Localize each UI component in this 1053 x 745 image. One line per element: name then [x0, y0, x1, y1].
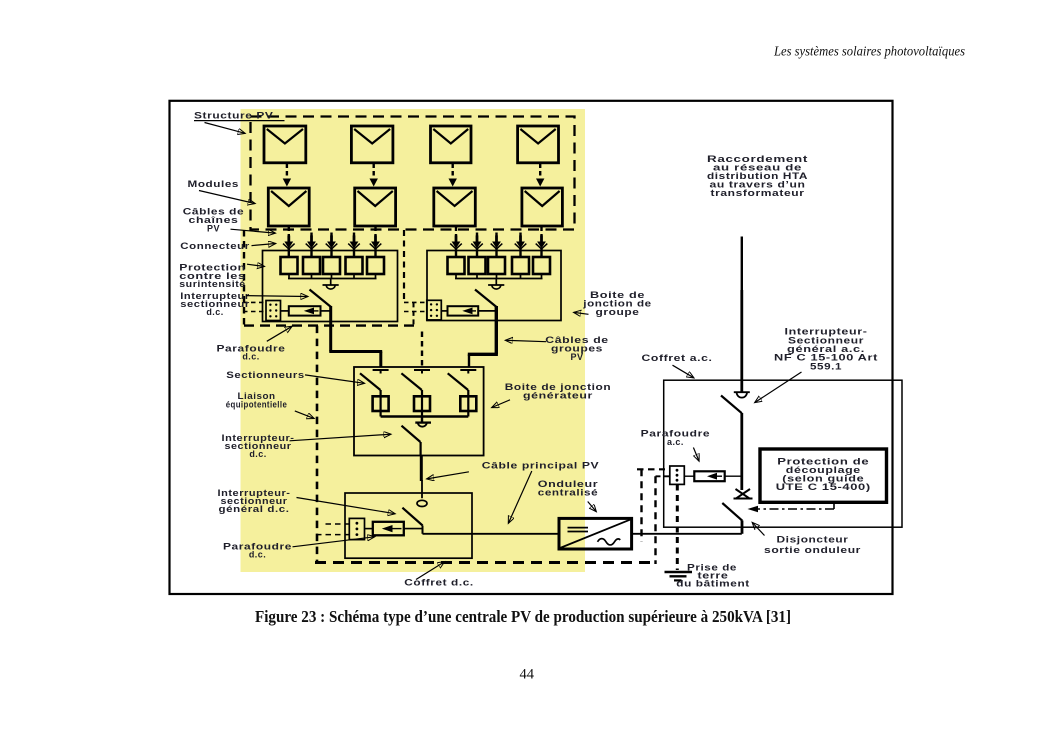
- coffret a.c. enclosure: [664, 380, 902, 527]
- label: Interrupteur sectionneur d.c. (junction box): [180, 291, 308, 317]
- label: Parafoudre d.c. (coffret): [223, 537, 375, 560]
- terminal block of parafoudre a.c.: [670, 466, 685, 484]
- wire: string stub 2 into junction box 1: [306, 233, 318, 258]
- svg-text:Structure PV: Structure PV: [194, 110, 274, 120]
- label: Raccordement au reseau HTA: [707, 154, 808, 198]
- HTA feeder line (to transformer network): [741, 237, 743, 393]
- PV module M2: [351, 126, 393, 163]
- svg-text:Câble principal PV: Câble principal PV: [482, 460, 600, 470]
- svg-text:transformateur: transformateur: [711, 188, 805, 198]
- svg-text:PV: PV: [207, 223, 220, 233]
- dashed earthing stubs from coffret d.c. terminal: [316, 524, 349, 535]
- wire: string stub 8 into junction box 2: [515, 233, 527, 258]
- bus bar of junction box 2: [455, 274, 543, 279]
- label: Interrupteur-Sectionneur general a.c.: [755, 327, 878, 403]
- label: Cable principal PV: [427, 460, 599, 523]
- label: Interrupteur-sectionneur d.c. (generator box): [222, 433, 391, 459]
- generator box branch 2: disconnector + fuse: [401, 370, 430, 417]
- fuse F6: [448, 257, 465, 274]
- fuse F10: [533, 257, 550, 274]
- label: Boite de jonction generateur: [492, 382, 611, 408]
- outer figure frame: [170, 101, 893, 594]
- wire: M6 string cable into junction box 1: [370, 227, 382, 258]
- ground (prise de terre): [665, 572, 693, 580]
- PV module M3: [431, 126, 472, 163]
- label: Coffret a.c.: [642, 353, 713, 378]
- junction box 2 (boite de jonction de groupe, right): [427, 251, 561, 321]
- wire: string stub 4 into junction box 1: [348, 233, 360, 258]
- wire: main DC cable coffret to inverter: [423, 533, 560, 535]
- wire: M7 string cable into junction box 2: [450, 227, 462, 258]
- dashed PE link short horizontal: [656, 475, 670, 477]
- wire: junction box 2 output to generator box (cable de groupe): [468, 306, 498, 368]
- PV module M7: [434, 188, 476, 226]
- equipotential dashed line, middle leg: [403, 230, 405, 303]
- wire: M4 to M8 string link: [536, 164, 544, 187]
- wire: string stub 6 into junction box 2: [471, 233, 483, 258]
- svg-text:Sectionneurs: Sectionneurs: [226, 370, 305, 380]
- label: Connecteur: [180, 241, 275, 251]
- yellow highlight region: [241, 109, 586, 572]
- label: Protection de decouplage (selon guide UTE C 15-400): [776, 457, 871, 492]
- fuse F9: [512, 257, 529, 274]
- svg-text:sortie onduleur: sortie onduleur: [764, 545, 861, 555]
- protection de decouplage relay box: [760, 449, 887, 502]
- dashed PE link horizontal to parafoudre a.c. terminal: [637, 468, 665, 470]
- svg-text:d.c.: d.c.: [206, 307, 223, 317]
- fuse F5: [367, 257, 384, 274]
- equipotential dashed stubs to terminal block 2: [404, 302, 427, 311]
- svg-text:Coffret a.c.: Coffret a.c.: [642, 353, 713, 363]
- label: Cables de chaines PV: [183, 207, 276, 234]
- label: Coffret d.c.: [404, 562, 474, 588]
- label: Prise de terre du batiment: [676, 562, 750, 588]
- svg-text:d.c.: d.c.: [249, 449, 266, 459]
- svg-text:Disjoncteur: Disjoncteur: [777, 535, 849, 545]
- circuit breaker symbol (disjoncteur): [734, 489, 753, 499]
- svg-text:équipotentielle: équipotentielle: [226, 399, 288, 409]
- generator junction box (boite de jonction generateur): [354, 367, 484, 456]
- terminal block of junction box 2: [427, 300, 442, 320]
- label: Parafoudre d.c. (junction box): [217, 326, 293, 361]
- wire: junction box 1 output to generator box: [329, 306, 382, 368]
- svg-text:surintensité: surintensité: [179, 279, 246, 289]
- switch-disconnector of junction box 1: [310, 279, 339, 308]
- svg-text:du bâtiment: du bâtiment: [676, 579, 750, 589]
- disjoncteur sortie onduleur blade: [722, 503, 742, 534]
- svg-text:d.c.: d.c.: [249, 550, 266, 560]
- surge arrester (parafoudre) of junction box 2: [441, 306, 496, 315]
- fuse F7: [469, 257, 486, 274]
- label: Structure PV: [194, 110, 285, 133]
- wire: M3 to M7 string link: [449, 164, 457, 187]
- general AC switch-disconnector contact: [721, 392, 750, 413]
- terminal block of junction box 1: [266, 301, 281, 321]
- fuse F8: [488, 257, 505, 274]
- equipotential dashed line, left leg: [243, 230, 245, 326]
- fuse F3: [323, 257, 340, 274]
- wire: M8 string cable into junction box 2: [536, 227, 548, 258]
- svg-text:générateur: générateur: [523, 390, 593, 400]
- svg-text:Coffret d.c.: Coffret d.c.: [404, 578, 474, 588]
- label: Modules: [188, 179, 256, 204]
- surge arrester (parafoudre) of junction box 1: [281, 306, 331, 315]
- liaison equipotentielle main dashed down-lead: [316, 326, 319, 563]
- wire: string stub 3 into junction box 1: [326, 233, 338, 258]
- equipotential dashed riser x=413.5: [413, 302, 415, 325]
- wire: AC bus in coffret a.c.: [740, 413, 743, 490]
- bus bar of junction box 1: [288, 274, 377, 279]
- terminal block in coffret d.c.: [349, 518, 364, 539]
- generator box branch 1: disconnector + fuse: [360, 370, 389, 417]
- fuse F1: [281, 257, 298, 274]
- svg-text:PV: PV: [571, 352, 584, 362]
- switch-disconnector of junction box 2: [475, 279, 504, 308]
- dashed PE link left of inverter output: [640, 469, 642, 541]
- Structure PV dashed enclosure: [251, 117, 575, 230]
- label: Liaison equipotentielle: [226, 391, 314, 418]
- PV module M6: [355, 188, 396, 226]
- label: Boite de jonction de groupe: [574, 290, 652, 317]
- dashed earth conductor to building earth: [676, 485, 679, 571]
- svg-text:groupe: groupe: [596, 307, 640, 317]
- coffret d.c. enclosure: [345, 493, 472, 558]
- equipotential dashed bottom run under junction boxes: [244, 324, 415, 326]
- svg-text:UTE C 15-400): UTE C 15-400): [776, 482, 871, 492]
- svg-text:559.1: 559.1: [810, 361, 842, 371]
- wire: inverter AC output: [632, 533, 742, 535]
- svg-text:Connecteur: Connecteur: [180, 241, 250, 251]
- label: Sectionneurs: [226, 370, 364, 384]
- generator box bus bar: [381, 415, 469, 417]
- label: Disjoncteur sortie onduleur: [752, 523, 861, 555]
- arrowhead of trip link: [748, 506, 759, 513]
- svg-text:général d.c.: général d.c.: [219, 504, 290, 514]
- wire: M1 to M5 string link: [283, 164, 291, 187]
- svg-text:Les systèmes solaires photovol: Les systèmes solaires photovoltaïques: [773, 44, 965, 59]
- surge arrester (parafoudre d.c.) in coffret d.c.: [365, 522, 423, 536]
- PV module M5: [268, 188, 309, 226]
- svg-text:44: 44: [520, 667, 535, 683]
- general DC switch-disconnector in coffret d.c.: [402, 500, 427, 534]
- generator box branch 3: disconnector + fuse: [448, 370, 477, 417]
- wire: cable principal PV (generator box to coffret d.c.): [420, 456, 424, 499]
- label: Onduleur centralise: [538, 479, 599, 512]
- fuse F2: [303, 257, 320, 274]
- equipotential dashed stubs to terminal block 1: [243, 302, 266, 311]
- surge arrester (parafoudre a.c.): [684, 471, 742, 481]
- label: Cables de groupes PV: [506, 335, 609, 362]
- PV module M1: [264, 126, 306, 163]
- wire: dashed middle group feeder into generator box: [421, 332, 423, 368]
- wire: M5 string cable into junction box 1: [283, 227, 295, 258]
- label: Protection contre les surintensite: [179, 262, 264, 289]
- junction box 1 (boite de jonction de groupe, left): [263, 251, 398, 322]
- fuse F4: [346, 257, 363, 274]
- dash-dot trip link from protection box to breaker: [750, 502, 834, 509]
- dashed DC-side bottom boundary: [315, 561, 656, 564]
- wire: M2 to M6 string link: [370, 164, 378, 187]
- svg-text:centralisé: centralisé: [538, 487, 599, 497]
- inverter (onduleur centralise): [559, 518, 632, 549]
- label: Interrupteur-sectionneur general d.c.: [218, 488, 396, 514]
- wire: string stub 7 into junction box 2: [491, 233, 503, 258]
- PV module M4: [518, 126, 559, 163]
- label: Parafoudre a.c.: [641, 429, 711, 461]
- svg-text:Figure 23 : Schéma type d’une: Figure 23 : Schéma type d’une centrale P…: [255, 607, 791, 626]
- svg-text:a.c.: a.c.: [667, 437, 684, 447]
- dashed PE link right of inverter output: [654, 476, 656, 564]
- svg-text:d.c.: d.c.: [242, 352, 259, 362]
- PV module M8: [522, 188, 563, 226]
- generator box main switch-disconnector d.c.: [402, 417, 432, 456]
- svg-text:Modules: Modules: [188, 179, 240, 189]
